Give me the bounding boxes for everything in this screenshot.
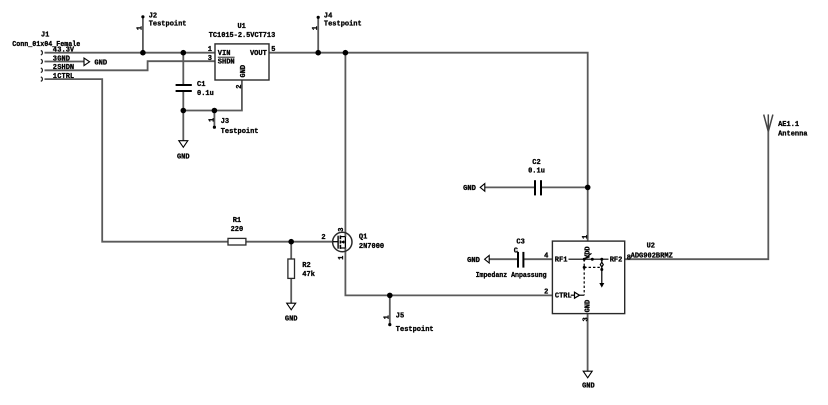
svg-text:CTRL: CTRL xyxy=(57,73,74,81)
wire SHDN net (J1.2 to U1.3) xyxy=(45,61,216,70)
svg-text:VOUT: VOUT xyxy=(250,50,267,58)
svg-text:GND: GND xyxy=(582,383,595,391)
svg-text:2: 2 xyxy=(236,84,244,88)
testpoint J5 xyxy=(384,313,434,334)
capacitor C1 xyxy=(176,81,214,98)
ground label GND (global, J1.3) xyxy=(84,58,107,67)
channel dashes xyxy=(339,236,341,240)
connector J1 xyxy=(41,51,43,82)
svg-text:GND: GND xyxy=(240,65,248,78)
svg-text:GND: GND xyxy=(585,300,593,313)
gate wire into circle xyxy=(333,241,338,243)
wire U2 GND stub xyxy=(587,314,589,372)
wire VOUT rail (U1.5 to top-right corner) xyxy=(269,53,588,241)
svg-text:1: 1 xyxy=(137,26,145,30)
gate bar xyxy=(337,236,339,249)
wire J2 testpoint stub xyxy=(142,17,144,53)
wire Q1 source to U2 CTRL xyxy=(345,248,552,296)
svg-text:1: 1 xyxy=(338,256,346,260)
svg-text:J2: J2 xyxy=(149,13,157,21)
node R2 junction xyxy=(288,239,294,245)
svg-text:RF2: RF2 xyxy=(610,257,623,265)
svg-text:0.1u: 0.1u xyxy=(528,168,545,176)
svg-text:C2: C2 xyxy=(532,159,540,167)
source connect xyxy=(340,247,345,249)
svg-text:4: 4 xyxy=(544,252,548,260)
svg-text:GND: GND xyxy=(57,55,70,63)
wire Q1 drain vertical xyxy=(344,53,346,237)
ground symbol (U2) xyxy=(582,371,595,390)
wire GND node horizontal to U1.2 xyxy=(183,80,242,111)
wire C3 left xyxy=(489,258,517,260)
regulator U1 xyxy=(208,23,276,89)
svg-text:GND: GND xyxy=(467,257,480,265)
svg-text:GND: GND xyxy=(285,316,298,324)
svg-text:47k: 47k xyxy=(302,271,315,279)
svg-text:220: 220 xyxy=(231,226,244,234)
testpoint J4 pad xyxy=(317,16,320,19)
svg-text:2N7000: 2N7000 xyxy=(359,243,384,251)
antenna AE1.1 xyxy=(764,114,773,131)
svg-text:3: 3 xyxy=(338,227,346,231)
ground label GND (C3) xyxy=(467,255,489,264)
svg-text:GND: GND xyxy=(177,154,190,162)
svg-text:U1: U1 xyxy=(237,23,245,31)
svg-text:Testpoint: Testpoint xyxy=(221,128,259,136)
svg-text:GND: GND xyxy=(94,59,107,67)
node J2 junction xyxy=(140,50,146,56)
svg-text:AE1.1: AE1.1 xyxy=(778,121,799,129)
wire J5 stub xyxy=(389,295,391,325)
wire C1 top xyxy=(182,53,184,84)
node Q1 drain junction xyxy=(343,50,349,56)
testpoint J5 pad xyxy=(388,323,391,326)
svg-text:Testpoint: Testpoint xyxy=(396,326,434,334)
svg-text:Impedanz Anpassung: Impedanz Anpassung xyxy=(476,272,547,280)
svg-text:2: 2 xyxy=(321,234,325,242)
svg-text:J5: J5 xyxy=(396,313,404,321)
svg-text:J4: J4 xyxy=(324,13,332,21)
svg-text:RF1: RF1 xyxy=(555,257,568,265)
svg-text:R2: R2 xyxy=(302,262,310,270)
svg-text:GND: GND xyxy=(463,185,476,193)
svg-text:J1: J1 xyxy=(41,32,49,40)
svg-text:Testpoint: Testpoint xyxy=(324,20,362,28)
svg-text:3.3V: 3.3V xyxy=(57,47,75,55)
node J4 junction xyxy=(315,50,321,56)
svg-text:C: C xyxy=(514,248,518,256)
capacitor C3 xyxy=(514,239,525,268)
svg-text:Antenna: Antenna xyxy=(778,131,808,139)
wire J4 testpoint stub xyxy=(317,17,319,53)
svg-text:R1: R1 xyxy=(233,217,241,225)
body arrow xyxy=(343,241,346,243)
wire C3 right xyxy=(524,258,552,260)
testpoint J2 xyxy=(137,13,187,31)
svg-text:5: 5 xyxy=(271,46,275,54)
svg-text:1: 1 xyxy=(208,118,216,122)
svg-text:2: 2 xyxy=(544,289,548,297)
wire C2 left xyxy=(485,186,534,188)
wire R2 bottom to GND xyxy=(290,278,292,303)
ground symbol (R2) xyxy=(285,303,298,323)
testpoint J3 xyxy=(208,118,258,136)
switch internals xyxy=(569,253,609,298)
svg-text:3: 3 xyxy=(208,55,212,63)
svg-text:Testpoint: Testpoint xyxy=(149,20,187,28)
wire C1 GND stub xyxy=(182,111,184,141)
testpoint J2 pad xyxy=(141,15,144,18)
svg-text:8: 8 xyxy=(627,255,631,263)
svg-text:SHDN: SHDN xyxy=(57,64,74,72)
wire 3.3V rail left (J1.4 to U1 VIN) xyxy=(45,52,216,54)
svg-text:0.1u: 0.1u xyxy=(197,90,214,98)
capacitor C2 xyxy=(528,159,545,196)
svg-text:Q1: Q1 xyxy=(359,234,367,242)
svg-text:ADG902BRMZ: ADG902BRMZ xyxy=(631,253,673,261)
node J5 junction xyxy=(387,293,393,299)
testpoint J4 xyxy=(312,13,362,31)
resistor R2 xyxy=(288,259,315,279)
svg-text:C1: C1 xyxy=(197,81,205,89)
svg-text:1: 1 xyxy=(582,235,590,239)
svg-text:J3: J3 xyxy=(221,118,229,126)
node C1 bottom junction xyxy=(181,108,187,114)
svg-text:1: 1 xyxy=(312,26,320,30)
svg-text:TC1015-2.5VCT713: TC1015-2.5VCT713 xyxy=(209,32,276,40)
node J3 junction xyxy=(212,108,218,114)
wire J3 stub xyxy=(213,111,215,127)
drain connect xyxy=(340,236,345,238)
resistor R1 xyxy=(228,217,246,245)
ground label GND (C2) xyxy=(463,184,485,193)
testpoint J3 pad xyxy=(213,126,216,129)
svg-text:VIN: VIN xyxy=(218,50,231,58)
node C1 top junction xyxy=(181,50,187,56)
svg-text:3: 3 xyxy=(582,317,590,321)
wire GND row J1.3 xyxy=(45,61,85,63)
wire C2 right xyxy=(542,186,588,188)
wire CTRL net (J1.1 down to R1) xyxy=(45,79,229,242)
svg-text:C3: C3 xyxy=(516,239,524,247)
svg-text:1: 1 xyxy=(208,46,212,54)
svg-text:SHDN: SHDN xyxy=(218,59,235,67)
wire R2 top stub xyxy=(290,242,292,259)
ground symbol (C1) xyxy=(177,141,190,162)
node C2/VDD junction xyxy=(585,185,591,191)
wire R1 to Q1 gate xyxy=(246,241,333,243)
rf switch U2 xyxy=(544,235,673,322)
svg-text:1: 1 xyxy=(384,315,392,319)
svg-text:CTRL: CTRL xyxy=(555,293,572,301)
transistor Q1 xyxy=(333,232,352,251)
svg-text:U2: U2 xyxy=(647,243,655,251)
wire RF2 to antenna xyxy=(625,132,769,260)
wire C1 bottom to GND node xyxy=(182,92,184,111)
